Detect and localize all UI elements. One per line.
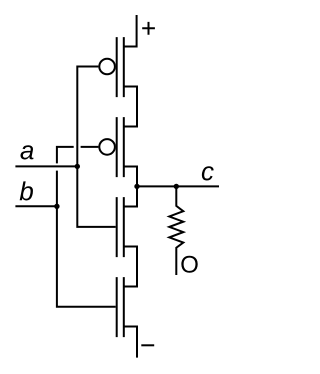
node a junction <box>75 164 80 169</box>
transistor Q3 NMOS upper (gate a) <box>117 197 124 257</box>
transistor Q4 NMOS lower (gate b) <box>117 277 124 337</box>
label + (supply) <box>142 22 155 35</box>
node: output junction at transistor stack <box>134 184 139 189</box>
wire: output c <box>137 185 219 187</box>
positive supply rail <box>124 15 137 47</box>
label a <box>20 145 33 159</box>
wire: net a from Q1 gate down to Q3 gate <box>77 67 115 227</box>
resistor R (load to O) <box>169 186 183 275</box>
label O <box>181 256 197 273</box>
label c <box>202 166 214 180</box>
node: resistor tap junction <box>174 184 179 189</box>
node b junction <box>54 204 59 209</box>
label - (supply) <box>141 344 154 346</box>
transistor Q2 PMOS second (gate b) <box>99 117 124 177</box>
wire: input a horizontal <box>15 165 77 167</box>
wire: net b from Q2 gate down to Q4 gate (hops over net a) <box>57 147 116 307</box>
wire: input b horizontal <box>15 205 57 207</box>
transistor Q1 PMOS top (gate a) <box>99 37 124 97</box>
label b <box>20 181 33 200</box>
wire: Q1 drain to Q2 source <box>124 87 137 127</box>
wire: Q3 source to Q4 drain <box>124 247 137 287</box>
wire: Q2 drain to Q3 drain through output node <box>124 167 137 207</box>
negative supply rail <box>124 327 137 358</box>
